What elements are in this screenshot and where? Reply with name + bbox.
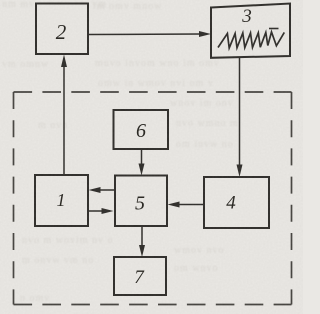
wire box3 to box4	[239, 57, 241, 167]
block 4	[204, 177, 269, 228]
wire box6 to box5	[141, 149, 143, 166]
dashed enclosure border top	[14, 91, 292, 93]
block 3	[211, 4, 290, 58]
block 1	[35, 175, 88, 226]
dashed enclosure border bottom	[14, 304, 292, 306]
arrowhead into box2	[61, 55, 67, 68]
sawtooth waveform	[218, 32, 284, 48]
dashed enclosure border left	[13, 92, 15, 305]
block 6	[114, 110, 169, 149]
overline on waveform	[269, 28, 279, 30]
arrowhead into box3	[199, 31, 211, 37]
arrowhead into box5 top	[139, 164, 145, 176]
wire box2 to box3	[88, 33, 201, 36]
arrowhead into box7	[139, 245, 145, 257]
ghost bleed-through text	[2, 0, 239, 304]
wire box1 to box2	[63, 65, 65, 175]
arrowhead into box5 right	[168, 202, 180, 208]
dashed enclosure border right	[291, 92, 293, 305]
block 5	[115, 176, 167, 227]
wire box5 to box7	[141, 226, 143, 247]
arrowhead into box1	[89, 187, 101, 193]
wire box4 to box5	[177, 204, 204, 206]
arrowhead into box5	[102, 208, 114, 214]
wire box1 to box5	[88, 210, 103, 212]
block 7	[114, 257, 166, 295]
wire box5 to box1	[98, 189, 114, 191]
block 2	[36, 4, 88, 55]
arrowhead into box4	[237, 165, 243, 178]
